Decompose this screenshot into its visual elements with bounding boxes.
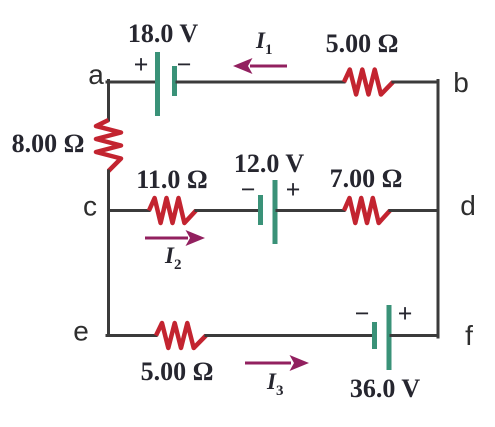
wire c to resistor 11ohm (109, 209, 150, 212)
svg-text:−: − (355, 299, 370, 328)
wire left vertical resistor to e (107, 171, 110, 336)
svg-text:5.00 Ω: 5.00 Ω (141, 357, 214, 386)
current arrow I1 (233, 58, 287, 74)
svg-text:b: b (453, 67, 469, 98)
battery 12.0 V plate short (-) (258, 195, 263, 225)
wire right vertical b to f (437, 81, 440, 338)
wire e to resistor 5ohm bottom (107, 334, 156, 337)
svg-text:−: − (177, 50, 192, 79)
battery 36.0 V plate long (+) (387, 305, 392, 370)
wire resistor 7ohm to d (390, 209, 438, 212)
wire resistor to corner b (393, 81, 438, 84)
svg-text:I1: I1 (255, 28, 272, 58)
battery 36.0 V plate short (-) (372, 322, 377, 349)
current arrow I2 (145, 230, 205, 246)
svg-text:5.00 Ω: 5.00 Ω (326, 29, 399, 58)
svg-text:12.0 V: 12.0 V (234, 149, 305, 178)
wire resistor 11ohm to battery 12V (196, 209, 258, 212)
wire top-left a to battery (107, 81, 155, 84)
svg-text:I3: I3 (266, 369, 283, 399)
battery 12.0 V plate long (+) (273, 180, 278, 244)
resistor 7.00 ohm (344, 198, 390, 223)
wire resistor 5ohm bottom to battery 36V (206, 334, 372, 337)
resistor 5.00 ohm bottom (156, 323, 206, 348)
resistor 11.0 ohm (149, 198, 196, 223)
current arrow I3 (245, 355, 309, 371)
battery 18.0 V plate long (+) (155, 52, 160, 116)
svg-text:a: a (88, 59, 104, 90)
svg-text:d: d (460, 190, 476, 221)
svg-text:18.0 V: 18.0 V (128, 19, 199, 48)
wire left vertical a to resistor 8ohm (107, 81, 110, 121)
svg-text:36.0 V: 36.0 V (350, 374, 421, 403)
resistor 5.00 ohm top (344, 70, 393, 95)
svg-text:−: − (241, 175, 256, 204)
svg-text:8.00 Ω: 8.00 Ω (12, 129, 85, 158)
svg-text:e: e (73, 316, 89, 347)
svg-text:+: + (286, 175, 301, 204)
svg-text:+: + (134, 50, 149, 79)
battery 18.0 V plate short (-) (172, 66, 177, 96)
svg-text:f: f (465, 320, 473, 351)
wire battery 12V to resistor 7ohm (277, 209, 344, 212)
svg-text:11.0 Ω: 11.0 Ω (136, 165, 207, 194)
wire battery to resistor 5ohm top (177, 81, 344, 84)
wire battery 36V to corner f (391, 334, 438, 337)
svg-text:I2: I2 (164, 243, 181, 273)
svg-text:+: + (398, 299, 413, 328)
svg-text:7.00 Ω: 7.00 Ω (330, 164, 403, 193)
resistor 8.00 ohm left vertical (96, 120, 121, 171)
svg-text:c: c (83, 191, 97, 222)
